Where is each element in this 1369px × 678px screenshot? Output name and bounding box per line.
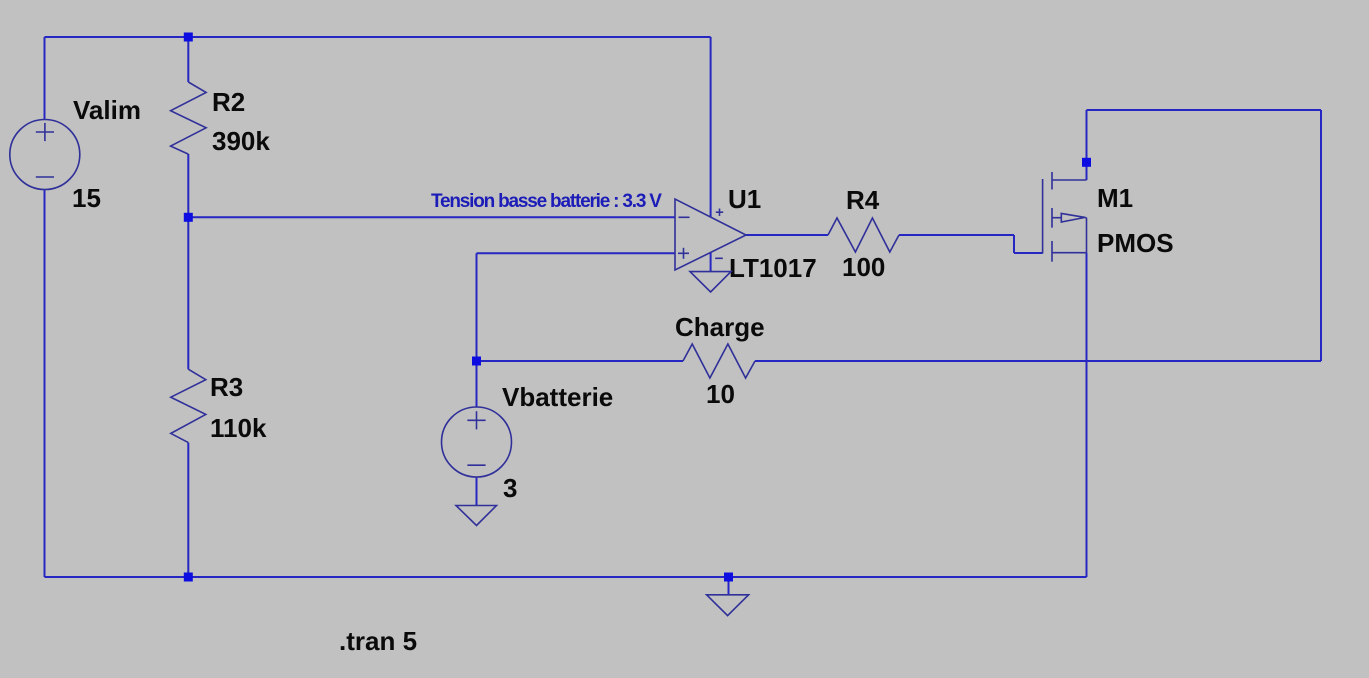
svg-text:R3: R3 bbox=[210, 372, 243, 402]
svg-text:Charge: Charge bbox=[675, 312, 765, 342]
svg-text:110k: 110k bbox=[210, 413, 267, 443]
svg-text:R2: R2 bbox=[212, 87, 245, 117]
ground Vbatterie bbox=[456, 506, 497, 526]
wire op-amp output bbox=[746, 234, 828, 236]
wire divider mid node to op-amp inverting input bbox=[188, 216, 675, 218]
resistor R2 (zigzag) bbox=[171, 82, 207, 154]
wire top rail bbox=[45, 36, 711, 38]
svg-text:Vbatterie: Vbatterie bbox=[502, 382, 613, 412]
wire Vbatterie top stub bbox=[476, 361, 478, 407]
resistor Charge (zigzag) bbox=[683, 344, 755, 378]
svg-text:10: 10 bbox=[706, 379, 735, 409]
svg-text:LT1017: LT1017 bbox=[729, 253, 817, 283]
wire gate jog vertical bbox=[1013, 235, 1015, 253]
wire op-amp negative supply stub bbox=[710, 253, 712, 272]
wire R3 bottom lead bbox=[187, 443, 189, 577]
wire ground stub on bottom rail bbox=[728, 577, 730, 595]
svg-text:R4: R4 bbox=[846, 185, 880, 215]
svg-text:15: 15 bbox=[72, 183, 101, 213]
wire R2 bottom lead to mid node bbox=[187, 154, 189, 217]
svg-text:PMOS: PMOS bbox=[1097, 228, 1174, 258]
svg-text:100: 100 bbox=[842, 252, 885, 282]
wire M1 drain lead bbox=[1086, 110, 1088, 180]
node B divider mid junction bbox=[184, 213, 193, 222]
op-amp U1 (triangle) bbox=[675, 199, 746, 270]
wire op-amp non-inverting input horizontal bbox=[477, 252, 676, 254]
wire R4 to gate jog bbox=[899, 234, 1014, 236]
wire left vertical lower (Valim bottom to ground rail) bbox=[44, 189, 46, 577]
wire left vertical upper (top rail to Valim top) bbox=[44, 37, 46, 120]
node A top rail junction bbox=[184, 33, 193, 42]
resistor R4 (zigzag) bbox=[828, 218, 899, 252]
svg-text:U1: U1 bbox=[728, 184, 761, 214]
wire M1 source lead down to ground rail bbox=[1086, 253, 1088, 577]
resistor R3 (zigzag) bbox=[171, 369, 206, 442]
node C bottom rail left junction bbox=[184, 573, 193, 582]
transistor M1 PMOS bbox=[1043, 172, 1087, 262]
node E bottom rail ground junction bbox=[724, 573, 733, 582]
wire op-amp positive supply from top rail bbox=[710, 37, 712, 217]
ground bottom rail bbox=[707, 595, 749, 616]
svg-text:Valim: Valim bbox=[73, 95, 141, 125]
svg-text:Tension basse batterie : 3.3 V: Tension basse batterie : 3.3 V bbox=[431, 191, 662, 212]
wire right loop vertical bbox=[1320, 110, 1322, 361]
wire R2 top lead bbox=[187, 37, 189, 82]
svg-text:.tran 5: .tran 5 bbox=[339, 626, 417, 656]
wire right loop top horizontal bbox=[1087, 109, 1322, 111]
wire bottom ground rail bbox=[45, 576, 1087, 578]
node D battery junction bbox=[472, 357, 481, 366]
wire Vbatterie bottom stub bbox=[476, 477, 478, 506]
node F M1 drain junction bbox=[1082, 158, 1091, 167]
voltage source Valim (circle) bbox=[10, 120, 80, 190]
voltage source Vbatterie (circle) bbox=[442, 407, 512, 477]
wire op-amp non-inverting input vertical to battery node bbox=[476, 253, 478, 361]
wire Charge resistor to right loop bbox=[755, 360, 1321, 362]
svg-text:3: 3 bbox=[503, 473, 517, 503]
svg-text:M1: M1 bbox=[1097, 183, 1133, 213]
svg-text:390k: 390k bbox=[212, 126, 270, 156]
ground op-amp negative supply bbox=[690, 272, 731, 292]
wire gate jog horizontal to gate bbox=[1014, 252, 1043, 254]
wire battery node to Charge resistor bbox=[477, 360, 684, 362]
wire R3 top lead bbox=[187, 217, 189, 369]
